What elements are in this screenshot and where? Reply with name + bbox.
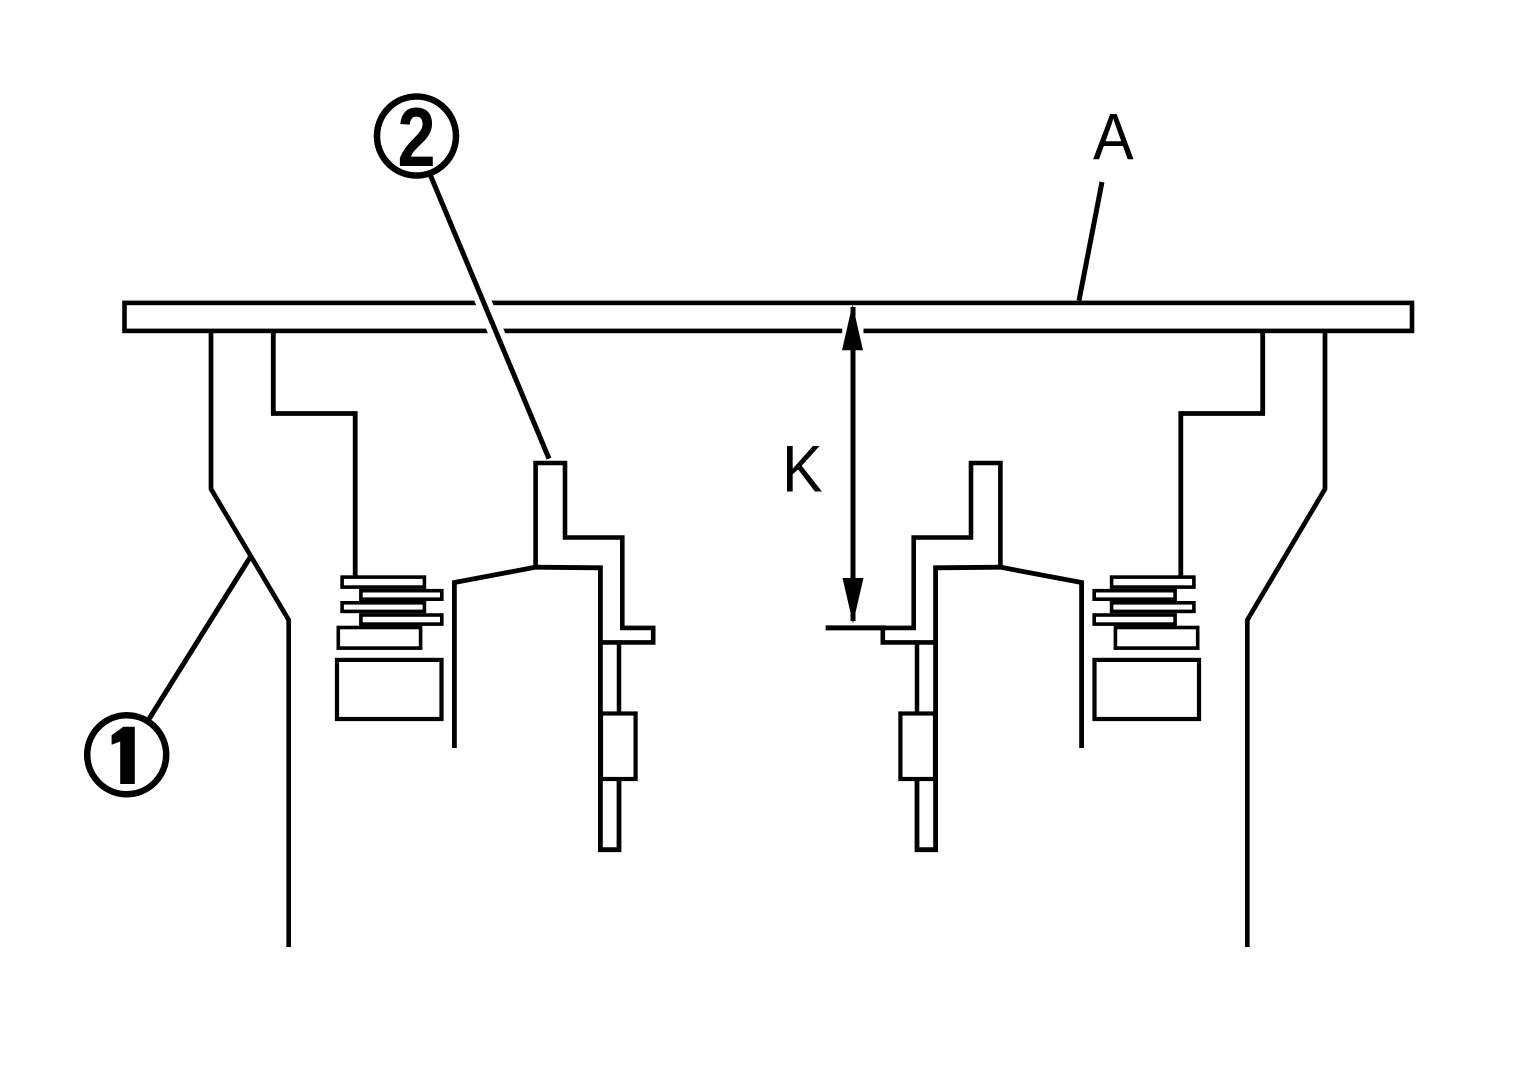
leader line to part 1 (149, 558, 250, 719)
straightedge bar A (125, 303, 1413, 331)
left shim stack ring 1 (342, 577, 424, 587)
callout circle 2 (377, 97, 456, 176)
right shim stack ring 4 (1094, 615, 1175, 624)
right cylinder-head outer wall (1247, 331, 1325, 947)
datum line at bottom of K dimension (826, 625, 886, 630)
leader line for label A (1079, 182, 1102, 301)
right injector stem upper (915, 642, 920, 713)
left injector nozzle box (601, 714, 636, 780)
white gap in bar bottom edge around arrow (842, 326, 863, 336)
dimension K arrowhead up (842, 305, 863, 351)
right valve spring box (1095, 660, 1200, 719)
left valve spring box (337, 660, 442, 719)
right shim stack ring 3 (1112, 603, 1194, 612)
right injector body (917, 567, 1082, 850)
right shim stack ring 1 (1112, 577, 1194, 587)
svg-text:K: K (782, 434, 823, 506)
left injector body (454, 567, 619, 850)
left shim stack ring 3 (342, 603, 424, 612)
left shim stack ring 5 (338, 628, 420, 649)
callout circle 1 (87, 715, 166, 794)
right injector nozzle box (900, 714, 935, 780)
right half: mirror of left structures (883, 331, 1325, 947)
svg-text:2: 2 (397, 92, 435, 185)
dimension K arrow shaft (851, 307, 856, 621)
dimension K arrowhead down (843, 578, 864, 624)
right cylinder-head inner step (1181, 331, 1263, 576)
left injector clamp (part 2) (536, 463, 654, 642)
left shim stack ring 2 (361, 591, 442, 600)
right shim stack ring 2 (1094, 591, 1175, 600)
svg-text:A: A (1093, 101, 1134, 173)
right injector clamp (883, 463, 1001, 642)
left injector stem upper (617, 642, 622, 713)
leader line to part 2 (with white casing across the bar) (434, 183, 547, 453)
digit 1 (112, 727, 135, 784)
left cylinder-head outer wall (211, 331, 289, 947)
right shim stack ring 5 (1115, 628, 1197, 649)
left shim stack ring 4 (361, 615, 442, 624)
left cylinder-head inner step (273, 331, 355, 576)
